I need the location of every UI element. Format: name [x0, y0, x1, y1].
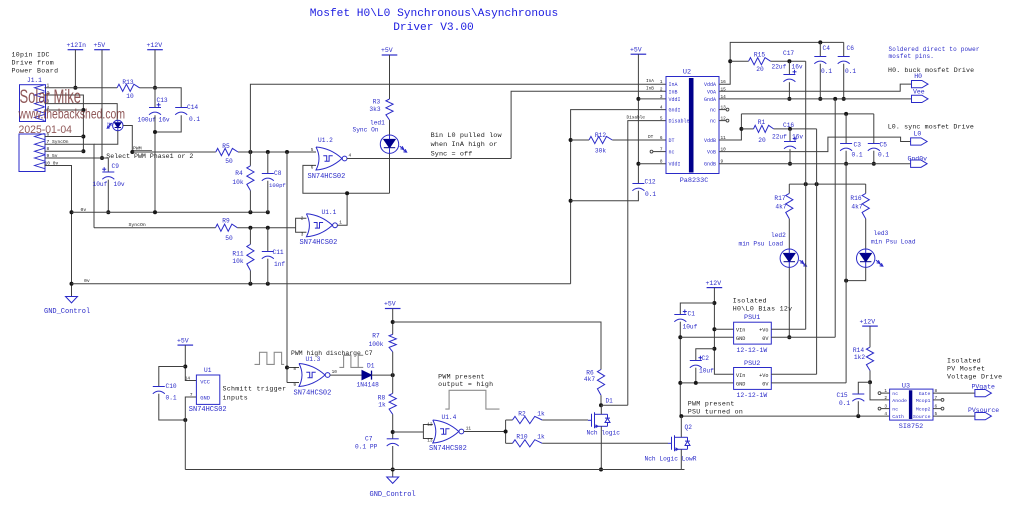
junction rail2/R11 [248, 282, 252, 286]
svg-text:12: 12 [427, 423, 433, 428]
resistor R15 2R [730, 52, 770, 73]
wire PSU2 0V to V4 [771, 382, 846, 384]
svg-text:C3: C3 [854, 142, 862, 149]
op-amp U2 Pa8233C driver IC [666, 69, 719, 185]
svg-text:1k: 1k [378, 401, 386, 408]
svg-text:GND: GND [736, 381, 745, 387]
wire 0v rail2 GND_Control [72, 283, 571, 285]
junction V1/led rail [804, 182, 808, 186]
resistor R11 10k [232, 228, 254, 284]
svg-text:R5: R5 [222, 143, 230, 150]
flag Gnd0v [908, 155, 928, 167]
wire U1.1 input tie [296, 218, 307, 232]
wire 0v rail1 [72, 211, 268, 213]
svg-text:Anode: Anode [892, 398, 907, 404]
svg-text:R14: R14 [853, 347, 864, 354]
wire U1.3 out to D1 [330, 374, 362, 376]
capacitor C7 0.1 PP [355, 436, 399, 451]
svg-text:1k2: 1k2 [854, 354, 865, 361]
wire Q1 drain stub [600, 405, 602, 414]
wire pin2 gnd bus [46, 95, 84, 151]
wire +12V riser [154, 50, 156, 88]
svg-text:VoB: VoB [707, 150, 716, 156]
wire Q2 source corner [681, 469, 684, 471]
svg-text:0.1: 0.1 [878, 151, 889, 158]
U3 pin numbers [884, 389, 937, 417]
svg-text:VIn: VIn [736, 328, 745, 334]
wire V2 VddB to PSU2 +Vo [816, 129, 818, 374]
svg-text:Mcop1: Mcop1 [916, 398, 931, 404]
wire U3 Mcop1 stub [933, 399, 941, 401]
junction Q1 drain D1 net [599, 403, 603, 407]
svg-text:Disable: Disable [669, 119, 690, 125]
svg-text:12-12-1W: 12-12-1W [737, 392, 768, 399]
svg-text:mosfet pins.: mosfet pins. [889, 53, 935, 60]
svg-text:+12In: +12In [67, 42, 87, 49]
connector J1.1 [19, 77, 46, 172]
svg-text:D1: D1 [606, 398, 614, 405]
svg-text:www.thebackshed.com: www.thebackshed.com [18, 107, 125, 122]
svg-text:+5V: +5V [94, 42, 106, 49]
svg-text:0.1: 0.1 [166, 395, 177, 402]
svg-text:PWM present: PWM present [688, 401, 735, 408]
wire VoB to L0 flag [719, 137, 911, 152]
wire pin9 to C9 [107, 158, 109, 172]
capacitor C14 0.1 [175, 104, 200, 123]
wire U1.4 input tie [423, 425, 432, 439]
junction led2/0V [787, 335, 791, 339]
svg-text:C11: C11 [273, 249, 284, 256]
wire R3 to led1 [389, 120, 391, 135]
capacitor C10 0.1 [153, 367, 186, 421]
wire V1 VddA to PSU1 +Vo [805, 61, 807, 329]
junction pin1/+12In [73, 86, 77, 90]
junction C4/GndA [818, 97, 822, 101]
svg-text:0V: 0V [762, 381, 769, 387]
svg-text:U1.2: U1.2 [318, 137, 333, 144]
wire nc pin7 stub [653, 151, 666, 153]
svg-text:10v: 10v [114, 181, 125, 188]
junction VddI pin8 [636, 162, 640, 166]
junction R1 tap [739, 127, 743, 131]
svg-text:+12V: +12V [706, 280, 722, 287]
svg-text:min Psu Load: min Psu Load [871, 238, 916, 245]
svg-text:InB: InB [669, 89, 678, 95]
svg-text:1: 1 [660, 80, 663, 85]
wire pin4 [46, 109, 84, 111]
wire PSU2 +Vo to V2 [771, 373, 816, 375]
junction rail1/C13 [153, 210, 157, 214]
wire +12In to pin1 [74, 50, 76, 88]
svg-text:10k: 10k [232, 179, 243, 186]
resistor R7 100k [369, 333, 397, 352]
resistor R4 10k [232, 152, 254, 212]
junction C2/PSU2 GND [694, 381, 698, 385]
svg-text:0.1: 0.1 [839, 400, 850, 407]
junction V2/led rail [815, 182, 819, 186]
junction PWM/U1.3 feed [285, 150, 289, 154]
svg-text:0.1 PP: 0.1 PP [355, 443, 378, 450]
wire C7 node to U1.4 inputs [393, 431, 424, 433]
svg-text:22uf: 22uf [772, 63, 787, 70]
resistor R3 3k3 [369, 99, 393, 120]
wire Q2 drain riser [680, 416, 682, 437]
wire VddI pin8 [638, 163, 666, 165]
junction Q2 drain [679, 414, 683, 418]
svg-text:2: 2 [884, 396, 887, 401]
junction C7/gnd rail [391, 468, 395, 472]
wire C14 bottom [155, 115, 181, 132]
svg-text:10k: 10k [232, 258, 243, 265]
capacitor C4 0.1 [814, 42, 832, 99]
wire R9 to U1.1 inputs [237, 227, 295, 229]
junction R13/+12V [153, 86, 157, 90]
svg-text:C13: C13 [157, 97, 168, 104]
power +5V U2 [630, 46, 646, 54]
junction C17 tap [787, 59, 791, 63]
svg-text:U1.1: U1.1 [322, 209, 337, 216]
svg-text:GND_Control: GND_Control [44, 308, 90, 316]
svg-text:U1.3: U1.3 [306, 356, 321, 363]
junction R15 tap [728, 59, 732, 63]
junction C3/GndB [844, 162, 848, 166]
wire C2 bottom [695, 368, 697, 383]
wire U1.2 pin6 feedback [303, 165, 390, 193]
wire R14 to anode node [869, 371, 871, 383]
op-gate U1.4 SN74HCS02 [427, 414, 471, 453]
svg-text:4: 4 [660, 106, 663, 111]
svg-text:led3: led3 [874, 230, 889, 237]
svg-text:8: 8 [293, 367, 296, 372]
wire led3 cathode to V4 [846, 267, 866, 280]
svg-text:SI8752: SI8752 [899, 423, 923, 431]
power +5V R3 [381, 47, 397, 55]
resistor R9 [216, 218, 238, 242]
svg-text:Select PWM Phase1 or 2: Select PWM Phase1 or 2 [106, 153, 193, 160]
svg-text:R17: R17 [774, 195, 785, 202]
svg-text:10uf: 10uf [683, 323, 698, 330]
svg-text:nc: nc [669, 150, 675, 156]
svg-text:Driver V3.00: Driver V3.00 [393, 22, 474, 34]
resistor R14 1k2 [853, 347, 874, 370]
svg-text:1: 1 [339, 220, 342, 225]
junction C16 tap [788, 127, 792, 131]
svg-text:11: 11 [466, 427, 472, 432]
junction +5V/pin9 [100, 156, 104, 160]
diode D1 1N4148 [357, 362, 380, 388]
svg-text:VOA: VOA [707, 89, 716, 95]
svg-text:C17: C17 [783, 50, 794, 57]
svg-text:nc: nc [892, 408, 898, 413]
wire Disable riser to Q1 drain [628, 121, 666, 406]
junction bus pin8 [81, 149, 85, 153]
led led1 Sync On [353, 119, 407, 153]
svg-text:U2: U2 [683, 69, 691, 77]
svg-text:Disable: Disable [627, 116, 646, 121]
svg-text:GND_Control: GND_Control [370, 491, 416, 499]
junction gndbus PSU2 GND [678, 381, 682, 385]
svg-text:+12V: +12V [147, 42, 163, 49]
waveform square wave 1 [255, 352, 285, 364]
wire Q1 source to gnd rail [600, 426, 602, 469]
svg-text:0v: 0v [84, 278, 90, 284]
note PWM present PSU turned on [688, 401, 743, 416]
svg-text:Power Board: Power Board [12, 68, 59, 75]
wire pin8 [46, 150, 84, 152]
wire PSU1 0V to V3 [771, 336, 835, 338]
junction C10/U1 gnd [183, 418, 187, 422]
svg-text:GndA: GndA [704, 97, 716, 103]
svg-text:PWM high discharge C7: PWM high discharge C7 [291, 350, 373, 357]
resistor R1 2R [741, 119, 773, 144]
wire C17 to GndA [788, 82, 790, 99]
capacitor C6 0.1 [838, 42, 857, 99]
wire C9 to 0v rail [107, 180, 109, 213]
junction led1/U1.1 out [345, 191, 349, 195]
svg-text:0.1: 0.1 [852, 151, 863, 158]
svg-text:InB: InB [646, 86, 654, 91]
svg-text:R16: R16 [850, 195, 861, 202]
svg-text:L0. sync mosfet Drive: L0. sync mosfet Drive [888, 124, 974, 131]
wire U3 Source to PVsource [933, 415, 975, 417]
junction C9/0v rail [106, 210, 110, 214]
svg-text:4k7: 4k7 [584, 376, 595, 383]
svg-text:DT: DT [648, 135, 654, 140]
note PWM present output = high [438, 374, 493, 388]
power +5V U1 [177, 337, 193, 345]
resistor R16 4k7 [850, 184, 869, 219]
svg-text:C7: C7 [365, 436, 373, 443]
svg-text:Solar Mike: Solar Mike [20, 87, 82, 108]
svg-text:+5V: +5V [177, 337, 189, 344]
svg-text:10: 10 [126, 93, 134, 100]
psu PSU2 12-12-1W [734, 360, 772, 399]
wire pin1 to R13 [46, 87, 118, 89]
junction rail1/R4 [248, 210, 252, 214]
svg-text:C12: C12 [645, 179, 656, 186]
junction GndI/R12 [569, 138, 573, 142]
wire +5V VddI riser [637, 54, 639, 183]
capacitor C16 22uf 16v [772, 122, 803, 149]
waveform square wave 2 [339, 355, 363, 367]
svg-text:2: 2 [660, 87, 663, 92]
svg-text:nc: nc [710, 108, 716, 114]
svg-text:0.1: 0.1 [845, 68, 856, 75]
wire GndB rail to Gnd0v flag [719, 163, 911, 165]
wire pin6 [46, 136, 84, 138]
svg-text:C1: C1 [688, 311, 696, 318]
flag L0 [911, 131, 928, 145]
svg-text:GndI: GndI [669, 108, 681, 114]
junction split [504, 430, 508, 434]
wire U1 GND down to rail [185, 397, 196, 470]
svg-text:R11: R11 [232, 250, 243, 257]
junction SyncOn/C11 [266, 226, 270, 230]
capacitor C15 0.1 [837, 382, 871, 416]
junction S2/PWM [130, 150, 134, 154]
svg-text:3: 3 [301, 232, 304, 237]
ground GND_Control bottom [370, 477, 416, 499]
svg-text:7: 7 [660, 148, 663, 153]
wire U1.2 output to InB riser [347, 158, 511, 160]
svg-text:Sync On: Sync On [353, 126, 379, 133]
wire +12V bus [714, 288, 733, 375]
svg-text:2025-01-04: 2025-01-04 [19, 124, 73, 136]
svg-text:Isolated: Isolated [733, 297, 767, 304]
wire pin3 to select led [46, 104, 118, 121]
svg-text:10: 10 [332, 370, 338, 375]
svg-text:SN74HCS02: SN74HCS02 [429, 445, 467, 453]
wire pin16 VddA riser [719, 42, 844, 84]
wire U3 nc pin1 stub [881, 392, 890, 394]
resistor R13 [117, 79, 139, 100]
wire R7 to node [392, 352, 394, 375]
svg-text:L0: L0 [914, 131, 922, 138]
op-gate U1.3 SN74HCS02 [293, 356, 337, 397]
svg-text:R10: R10 [516, 433, 527, 440]
svg-text:VddA: VddA [704, 82, 716, 88]
svg-text:+Vo: +Vo [759, 373, 768, 379]
wire C1 bottom / gnd bus [679, 322, 681, 416]
svg-text:Gate: Gate [919, 391, 931, 397]
net label PWM [132, 145, 153, 151]
wire nc pin13 stub [719, 109, 726, 111]
svg-text:GND: GND [736, 336, 745, 342]
svg-text:+5V: +5V [381, 47, 393, 54]
wire U3 Gate to PVgate [933, 392, 975, 394]
junction C1 tap [712, 301, 716, 305]
svg-text:0V: 0V [762, 336, 769, 342]
svg-text:Isolated: Isolated [947, 357, 981, 364]
svg-text:Q2: Q2 [685, 424, 693, 431]
svg-text:GND: GND [200, 396, 210, 402]
svg-text:1k: 1k [537, 410, 545, 417]
junction PWM/R4 [248, 150, 252, 154]
junction 0v rail2 [70, 282, 74, 286]
svg-text:5: 5 [660, 117, 663, 122]
wire R2/R10 split tie [505, 420, 507, 443]
wire pin10 0v [46, 166, 72, 297]
wire +12V to C13/C14 [155, 88, 181, 108]
svg-text:Schmitt trigger: Schmitt trigger [223, 385, 287, 392]
junction C17/GndA [787, 97, 791, 101]
svg-text:U1: U1 [204, 367, 212, 374]
wire R2 to Q1 gate [542, 419, 588, 421]
power +5V left [94, 42, 110, 50]
svg-text:+5V: +5V [384, 301, 396, 308]
wire S2 cathode to SyncOn [94, 131, 118, 145]
flag PVsource [968, 407, 999, 420]
wire led2 cathode to PSU1 0V [788, 267, 790, 337]
resistor R12 30k [571, 132, 666, 155]
flag H0 [912, 73, 929, 88]
capacitor C2 10uf [690, 349, 715, 375]
wire +5V to R3 [389, 55, 391, 99]
svg-text:H0: H0 [914, 73, 922, 80]
junction gndbus PSU1 GND [678, 335, 682, 339]
svg-text:SN74HCS02: SN74HCS02 [294, 389, 332, 397]
wire R1 to V2 riser [774, 128, 817, 130]
note Schmitt trigger inputs [223, 385, 287, 401]
svg-text:50: 50 [225, 158, 233, 165]
svg-text:10uf: 10uf [699, 367, 714, 374]
wire R6 top feed [393, 322, 601, 370]
junction bus pin6 [81, 135, 85, 139]
svg-text:16v: 16v [792, 134, 803, 141]
wire pin7 SyncOn [46, 144, 95, 228]
U2 external net labels [627, 79, 655, 140]
wire InA riser from PWM [250, 84, 666, 152]
svg-text:GndB: GndB [704, 162, 716, 168]
svg-text:Nch logic: Nch logic [587, 430, 621, 437]
wire R16 to led3 [865, 219, 867, 250]
svg-text:6: 6 [660, 136, 663, 141]
junction D1 node [391, 373, 395, 377]
led S2 select indicator [107, 120, 123, 130]
svg-text:0.1: 0.1 [645, 191, 656, 198]
svg-text:Source: Source [913, 414, 931, 420]
junction PWM/C8 [266, 150, 270, 154]
wire cathode rail to U3 [680, 415, 889, 417]
wire D1 to R7/R8 node [372, 374, 393, 376]
svg-text:Drive from: Drive from [12, 60, 55, 67]
capacitor C5 0.1 [868, 114, 890, 164]
op-gate U1.2 SN74HCS02 [308, 137, 352, 181]
svg-text:30k: 30k [595, 148, 606, 155]
wire nc pin12 stub [719, 120, 726, 122]
capacitor C3 0.1 [840, 114, 863, 164]
wire +5V to R7 [392, 309, 394, 335]
wire +12V to R14 [869, 326, 871, 347]
junction Q1 source/rail [599, 468, 603, 472]
junction led3/V4 [844, 279, 848, 283]
wire PWM select to R5 [132, 151, 216, 153]
capacitor C1 10uf [674, 303, 714, 330]
svg-text:H0. buck mosfet Drive: H0. buck mosfet Drive [888, 67, 974, 74]
svg-text:12-12-1W: 12-12-1W [737, 347, 768, 354]
resistor R10 1k [506, 433, 545, 447]
svg-text:PSU1: PSU1 [744, 314, 760, 322]
svg-text:20: 20 [756, 66, 764, 73]
svg-text:VIn: VIn [736, 373, 745, 379]
svg-text:C14: C14 [187, 104, 198, 111]
svg-text:C16: C16 [783, 122, 794, 129]
op-amp U3 SI8752 isolated driver [890, 383, 933, 431]
junction C6/GndA [842, 97, 846, 101]
svg-text:C6: C6 [847, 45, 855, 52]
wire R6 to Q1 drain [600, 395, 602, 405]
svg-text:VddB: VddB [704, 138, 716, 144]
svg-text:Pa8233C: Pa8233C [680, 177, 709, 185]
power +12V left [147, 42, 163, 50]
led led3 min Psu Load [857, 230, 916, 267]
wire VddB rail [741, 113, 873, 115]
connector pin number labels [45, 83, 69, 167]
svg-text:1nf: 1nf [274, 261, 285, 268]
svg-text:nc: nc [892, 392, 898, 397]
svg-text:4: 4 [349, 154, 352, 159]
junction R14/C15 [868, 380, 872, 384]
waveform single pulse [445, 390, 499, 409]
wire C7 to ground [392, 446, 394, 477]
wire C13 bottom to 0v rail [154, 115, 156, 212]
resistor R17 4k7 [774, 184, 792, 219]
svg-text:C8: C8 [274, 170, 282, 177]
svg-text:Mosfet H0\L0 Synchronous\Async: Mosfet H0\L0 Synchronous\Asynchronous [310, 8, 558, 20]
junction GndI/C12 wire [569, 199, 573, 203]
svg-text:led1: led1 [370, 119, 385, 126]
wire InB riser [511, 91, 666, 158]
